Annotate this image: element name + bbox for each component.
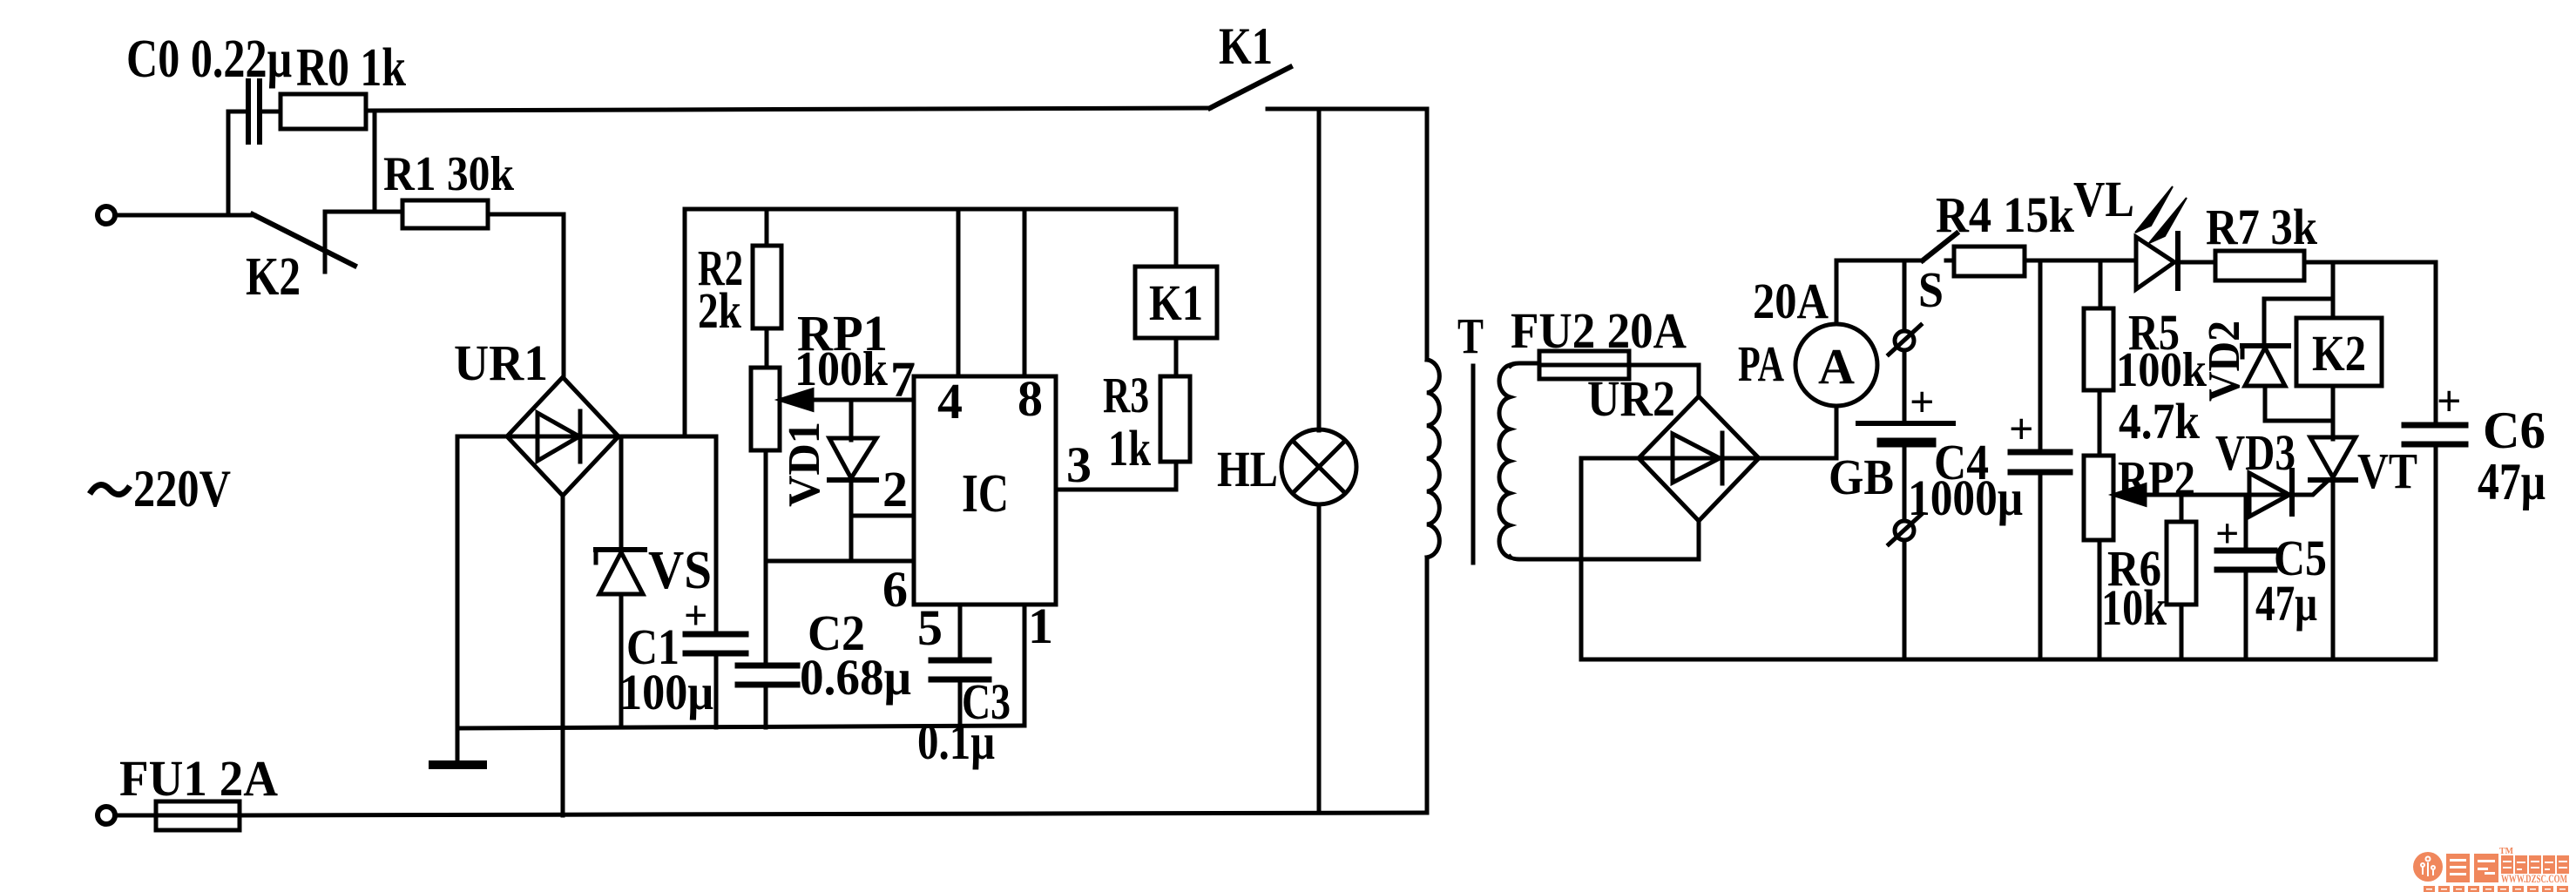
switch S blade <box>1923 233 1957 260</box>
switch K1 blade <box>1210 67 1290 108</box>
ground symbol <box>433 728 483 765</box>
svg-text:K1: K1 <box>1149 274 1203 331</box>
svg-text:47μ: 47μ <box>2478 453 2546 510</box>
wire R2 to RP1 <box>765 328 769 368</box>
wire riser to IC rail <box>683 209 687 436</box>
resistor R6 <box>2167 522 2196 605</box>
svg-text:0.68μ: 0.68μ <box>800 649 911 706</box>
svg-text:4.7k: 4.7k <box>2119 393 2201 449</box>
wire R5 to RP2 <box>2098 390 2102 456</box>
svg-text:+: + <box>2437 376 2462 425</box>
relay coil K2 <box>2296 318 2382 386</box>
svg-text:100k: 100k <box>2116 343 2208 397</box>
svg-text:GB: GB <box>1829 449 1894 505</box>
resistor R7 <box>2215 251 2304 280</box>
wire ammeter to S switch <box>1836 259 1923 263</box>
svg-text:220V: 220V <box>133 460 231 517</box>
resistor R4 <box>1946 247 2025 276</box>
svg-text:K1: K1 <box>1219 17 1273 75</box>
svg-text:VT: VT <box>2357 443 2417 499</box>
watermark slogan glyphs <box>2424 886 2568 892</box>
terminal AC live <box>98 206 115 224</box>
wire K1 contact to transformer <box>1268 109 1427 360</box>
svg-text:WWW.DZSC.COM: WWW.DZSC.COM <box>2501 872 2567 885</box>
wire primary bottom <box>1425 557 1430 813</box>
capacitor C0 <box>248 81 281 142</box>
wire bottom neutral <box>240 813 1427 815</box>
wire K2 coil branch <box>2331 262 2336 318</box>
svg-text:S: S <box>1918 261 1944 318</box>
svg-text:T: T <box>1457 307 1484 364</box>
wire secondary bottom to UR2 <box>1510 521 1699 559</box>
svg-text:UR2: UR2 <box>1587 370 1675 427</box>
svg-text:VD1: VD1 <box>780 422 829 507</box>
negative rail <box>1581 658 2436 662</box>
potentiometer RP1 <box>751 368 914 450</box>
svg-text:10k: 10k <box>2101 579 2167 636</box>
wire K2 to R1 <box>325 210 402 214</box>
svg-text:K2: K2 <box>246 247 301 307</box>
svg-text:4: 4 <box>937 373 963 429</box>
wire R1 to UR1 top <box>488 214 564 377</box>
svg-text:8: 8 <box>1018 370 1043 427</box>
svg-text:RP2: RP2 <box>2118 450 2195 507</box>
svg-text:6: 6 <box>882 561 908 618</box>
svg-text:5: 5 <box>917 599 943 656</box>
transformer T core <box>1471 366 1476 563</box>
wire pin8 riser <box>1023 209 1027 376</box>
wire terminal to K2 pivot <box>116 213 254 218</box>
transformer T primary winding <box>1427 360 1439 557</box>
wire UR1 left vertex to left rail <box>457 436 507 728</box>
led VL <box>2135 186 2215 289</box>
svg-text:100μ: 100μ <box>619 664 713 720</box>
wire UR1 bottom vertex down <box>561 496 565 815</box>
svg-text:R1 30k: R1 30k <box>383 147 515 201</box>
bridge rectifier UR1 <box>507 377 619 496</box>
wire UR1 plus node <box>619 435 716 439</box>
watermark big glyphs <box>2446 854 2498 882</box>
svg-text:2k: 2k <box>698 282 742 339</box>
wire pin5 <box>958 605 963 660</box>
wire top to K1 <box>366 108 1210 111</box>
svg-text:20A: 20A <box>1753 273 1829 329</box>
svg-text:7: 7 <box>890 351 916 408</box>
potentiometer RP2 <box>2084 456 2294 540</box>
diode VD3 <box>2249 470 2292 517</box>
svg-text:47μ: 47μ <box>2255 575 2317 632</box>
svg-text:2: 2 <box>882 461 908 517</box>
svg-text:+: + <box>1910 377 1935 426</box>
resistor R3 <box>1160 376 1190 462</box>
wire R0 junction down <box>373 111 377 212</box>
svg-text:3: 3 <box>1066 436 1092 493</box>
lamp HL <box>1281 429 1356 813</box>
wire pin3 to R3 <box>1056 462 1176 490</box>
svg-text:1000μ: 1000μ <box>1908 470 2023 526</box>
battery clip bottom <box>1889 515 1921 659</box>
wire HL branch <box>1317 109 1322 430</box>
svg-text:C6: C6 <box>2483 402 2546 459</box>
resistor R2 <box>753 246 781 328</box>
svg-text:UR1: UR1 <box>454 334 548 391</box>
wire secondary top to FU2 <box>1510 363 1539 366</box>
svg-text:VL: VL <box>2073 171 2134 227</box>
diode VD1 <box>829 400 876 561</box>
wire pin6 <box>766 559 914 564</box>
svg-text:FU1 2A: FU1 2A <box>119 750 278 807</box>
switch K2 contact stub <box>323 212 328 272</box>
wire FU2 to UR2 top <box>1629 365 1699 396</box>
capacitor C6 <box>2404 425 2465 659</box>
svg-text:IC: IC <box>962 464 1009 524</box>
zener diode VS <box>596 436 645 727</box>
svg-text:R0 1k: R0 1k <box>296 38 406 98</box>
svg-text:VD2: VD2 <box>2200 321 2249 402</box>
bridge rectifier UR2 <box>1639 396 1759 521</box>
svg-text:1k: 1k <box>1108 420 1152 476</box>
svg-text:R7 3k: R7 3k <box>2206 199 2318 255</box>
resistor R0 <box>281 94 366 129</box>
watermark logo icon <box>2413 852 2443 882</box>
capacitor C5 <box>2217 495 2275 659</box>
wire R5 branch <box>2099 260 2103 308</box>
svg-text:VS: VS <box>648 541 712 600</box>
capacitor C4 <box>2011 452 2070 659</box>
wire R6 branch <box>2180 495 2184 522</box>
svg-text:A: A <box>1818 338 1855 395</box>
zener diode VD2 <box>2242 299 2333 421</box>
wire R6 down <box>2180 605 2184 659</box>
wire C4 branch <box>2038 260 2043 449</box>
wire pin2 <box>851 514 914 518</box>
svg-text:VD3: VD3 <box>2215 424 2295 481</box>
switch K2 blade <box>253 214 355 266</box>
wire battery branch <box>1903 260 1907 331</box>
terminal AC neutral <box>98 807 115 824</box>
label AC 220V <box>90 485 130 495</box>
fuse FU1 <box>116 801 240 830</box>
svg-text:K2: K2 <box>2312 325 2366 382</box>
svg-text:+: + <box>684 592 707 639</box>
ammeter PA <box>1795 324 1877 406</box>
capacitor C1 <box>686 436 746 727</box>
transformer T secondary winding <box>1499 365 1510 557</box>
capacitor C2 <box>738 666 797 727</box>
wire pin4 riser <box>957 209 961 376</box>
svg-text:TM: TM <box>2499 847 2514 856</box>
wire UR2 right vertex to ammeter <box>1759 406 1836 458</box>
svg-text:+: + <box>2009 404 2034 453</box>
watermark mid glyphs <box>2501 855 2569 874</box>
wire RP2 bottom <box>2098 540 2102 659</box>
svg-text:+: + <box>2215 510 2239 557</box>
resistor R5 <box>2084 308 2113 390</box>
resistor R1 <box>402 200 488 228</box>
wire C0 branch <box>228 111 248 215</box>
wire IC vcc rail <box>685 209 1176 267</box>
relay coil K1 <box>1135 267 1217 338</box>
wire RP1 bottom to C2 <box>764 450 768 666</box>
svg-text:FU2 20A: FU2 20A <box>1511 302 1687 359</box>
svg-text:100k: 100k <box>794 342 889 396</box>
fuse FU2 <box>1539 351 1629 379</box>
svg-text:0.1μ: 0.1μ <box>917 713 995 770</box>
wire R4 to VL <box>2025 259 2136 263</box>
wire UR2 left vertex to negative rail <box>1581 458 1639 659</box>
wire pin1 down <box>1023 605 1027 726</box>
wire ammeter up <box>1835 260 1839 324</box>
svg-text:R4 15k: R4 15k <box>1936 186 2075 243</box>
wire R3 to K1 coil <box>1174 338 1179 376</box>
battery GB <box>1858 350 1953 521</box>
ground rail <box>457 726 1024 728</box>
svg-text:C0 0.22μ: C0 0.22μ <box>126 30 292 89</box>
battery clip top <box>1889 325 1921 355</box>
IC U1 box <box>914 376 1056 605</box>
svg-text:R3: R3 <box>1103 367 1149 423</box>
svg-text:1: 1 <box>1028 598 1053 654</box>
svg-text:PA: PA <box>1738 335 1784 392</box>
thyristor VT <box>2294 386 2356 659</box>
wire R2 branch <box>765 209 769 246</box>
svg-text:HL: HL <box>1217 441 1278 497</box>
wire R7 to C6 <box>2304 262 2436 422</box>
capacitor C3 <box>931 660 989 726</box>
